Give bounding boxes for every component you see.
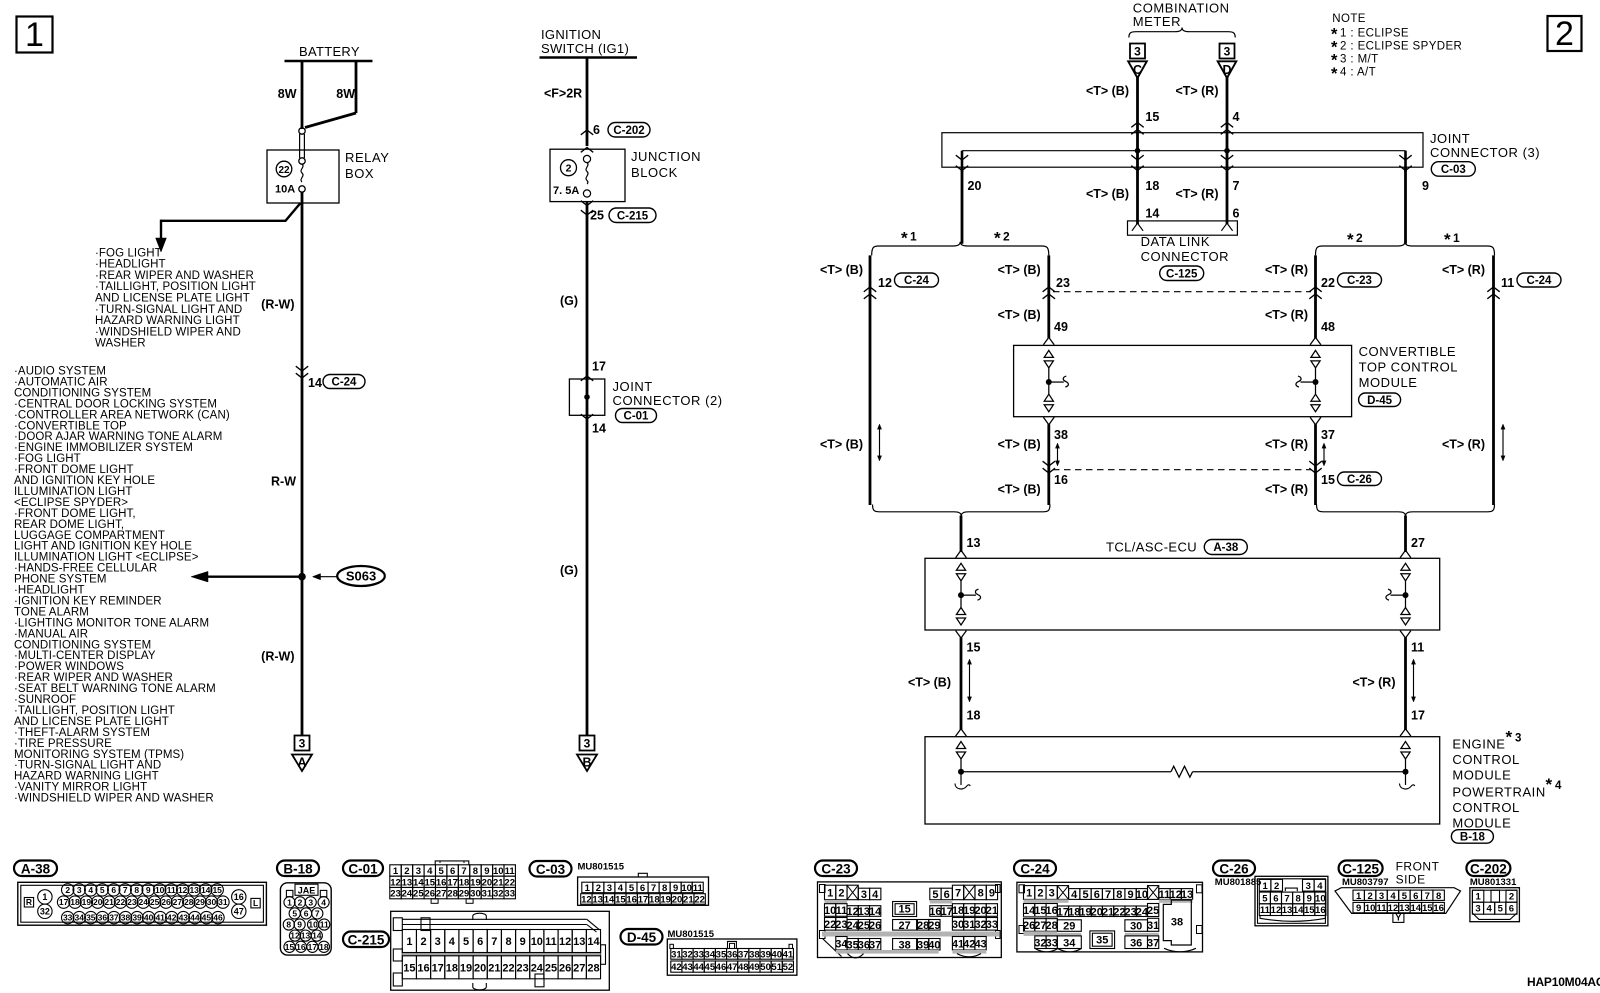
svg-text:18: 18 [967, 709, 981, 723]
svg-text:<T> (B): <T> (B) [1086, 187, 1129, 201]
svg-text:14: 14 [413, 877, 424, 888]
svg-text:11: 11 [1411, 641, 1424, 655]
svg-text:5: 5 [1082, 889, 1088, 901]
svg-text:11: 11 [505, 866, 516, 877]
svg-text:8W: 8W [336, 87, 355, 101]
svg-text:8: 8 [662, 883, 667, 894]
svg-text:15: 15 [403, 962, 415, 974]
svg-text:5: 5 [292, 908, 297, 918]
svg-text:29: 29 [459, 889, 470, 900]
svg-text:POWERTRAIN: POWERTRAIN [1452, 784, 1545, 799]
svg-text:BOX: BOX [345, 166, 374, 181]
svg-text:C-202: C-202 [1470, 861, 1507, 876]
svg-text:12: 12 [1271, 905, 1282, 916]
svg-text:7: 7 [315, 908, 320, 918]
svg-text:27: 27 [173, 897, 183, 907]
svg-text:4: 4 [1071, 889, 1078, 901]
svg-text:21: 21 [986, 905, 998, 917]
svg-text:A: A [297, 756, 306, 770]
svg-text:TOP CONTROL: TOP CONTROL [1359, 360, 1458, 375]
svg-text:*: * [1331, 65, 1338, 83]
svg-text:R: R [26, 897, 32, 907]
svg-text:14: 14 [1145, 207, 1159, 221]
svg-text:17: 17 [59, 897, 69, 907]
svg-text:7: 7 [1425, 891, 1430, 902]
svg-text:2: 2 [1003, 230, 1010, 244]
svg-text:5: 5 [100, 885, 105, 895]
svg-text:5: 5 [1402, 891, 1408, 902]
svg-text:CONVERTIBLE: CONVERTIBLE [1359, 344, 1457, 359]
svg-text:7: 7 [955, 888, 961, 900]
svg-text:3: 3 [308, 897, 313, 907]
svg-text:HAZARD WARNING LIGHT: HAZARD WARNING LIGHT [95, 315, 240, 327]
svg-text:12: 12 [390, 877, 401, 888]
svg-text:(G): (G) [560, 564, 578, 578]
svg-text:32: 32 [682, 949, 693, 960]
svg-text:17: 17 [592, 360, 606, 374]
svg-text:4: 4 [1233, 110, 1240, 124]
svg-text:12: 12 [878, 276, 892, 290]
svg-text:<T> (R): <T> (R) [1442, 438, 1485, 452]
svg-text:23: 23 [517, 962, 529, 974]
svg-text:A-38: A-38 [21, 861, 51, 876]
svg-text:13: 13 [301, 931, 311, 941]
svg-text:39: 39 [132, 913, 142, 923]
svg-text:C-03: C-03 [1441, 164, 1466, 176]
svg-text:2 : ECLIPSE SPYDER: 2 : ECLIPSE SPYDER [1340, 40, 1462, 52]
svg-text:·TURN-SIGNAL LIGHT AND: ·TURN-SIGNAL LIGHT AND [95, 304, 242, 316]
svg-text:C-24: C-24 [332, 377, 358, 389]
svg-text:<T> (B): <T> (B) [908, 676, 951, 690]
svg-text:4: 4 [1390, 891, 1396, 902]
svg-text:3: 3 [861, 889, 867, 901]
svg-text:7: 7 [1284, 893, 1289, 904]
svg-text:16: 16 [296, 942, 306, 952]
svg-text:2: 2 [566, 163, 572, 175]
svg-text:1: 1 [1026, 888, 1032, 900]
svg-text:BLOCK: BLOCK [631, 165, 678, 180]
svg-text:MU801331: MU801331 [1470, 877, 1517, 888]
svg-text:13: 13 [1181, 889, 1193, 901]
svg-text:38: 38 [1171, 916, 1183, 928]
svg-text:3: 3 [1306, 881, 1311, 892]
svg-text:22: 22 [502, 962, 514, 974]
svg-text:7: 7 [1105, 889, 1111, 901]
svg-text:8: 8 [978, 888, 984, 900]
svg-text:3: 3 [1049, 888, 1055, 900]
svg-text:4: 4 [88, 885, 93, 895]
svg-text:16: 16 [436, 877, 447, 888]
svg-text:S063: S063 [346, 569, 376, 584]
svg-text:11: 11 [1377, 903, 1388, 914]
svg-text:32: 32 [493, 889, 504, 900]
svg-text:C-125: C-125 [1166, 268, 1198, 280]
svg-text:CONTROL: CONTROL [1452, 800, 1519, 815]
svg-text:Y: Y [1395, 913, 1401, 923]
svg-text:·REAR WIPER AND WASHER: ·REAR WIPER AND WASHER [95, 270, 254, 282]
svg-text:2: 2 [1509, 892, 1514, 903]
svg-text:CONNECTOR (3): CONNECTOR (3) [1430, 145, 1540, 160]
svg-text:9: 9 [989, 888, 995, 900]
svg-text:37: 37 [109, 913, 119, 923]
svg-text:B-18: B-18 [283, 861, 313, 876]
svg-text:11: 11 [1260, 905, 1271, 916]
svg-text:11: 11 [1501, 276, 1514, 290]
svg-text:14: 14 [592, 422, 606, 436]
svg-text:48: 48 [1321, 320, 1335, 334]
svg-text:18: 18 [459, 877, 470, 888]
svg-text:2: 2 [1367, 891, 1372, 902]
svg-text:2: 2 [1274, 881, 1279, 892]
svg-text:C-215: C-215 [617, 210, 649, 222]
svg-text:14: 14 [1293, 905, 1304, 916]
svg-text:39: 39 [760, 949, 771, 960]
svg-text:6: 6 [1413, 891, 1418, 902]
svg-text:D-45: D-45 [1367, 395, 1393, 407]
svg-text:22: 22 [504, 877, 515, 888]
svg-text:C-24: C-24 [1527, 275, 1553, 287]
svg-text:29: 29 [928, 920, 940, 932]
svg-text:<T> (B): <T> (B) [1086, 84, 1129, 98]
svg-text:<T> (R): <T> (R) [1265, 308, 1308, 322]
svg-text:18: 18 [70, 897, 80, 907]
svg-text:3: 3 [584, 737, 591, 751]
svg-text:<T> (B): <T> (B) [998, 483, 1041, 497]
svg-text:8: 8 [134, 885, 139, 895]
svg-text:34: 34 [75, 913, 85, 923]
svg-text:BATTERY: BATTERY [299, 44, 360, 59]
svg-text:20: 20 [968, 179, 982, 193]
svg-text:D-45: D-45 [627, 930, 657, 945]
svg-text:(G): (G) [560, 294, 578, 308]
svg-text:6: 6 [640, 883, 645, 894]
svg-text:15: 15 [212, 885, 222, 895]
svg-text:9: 9 [1128, 889, 1134, 901]
svg-text:17: 17 [432, 962, 444, 974]
svg-text:20: 20 [93, 897, 103, 907]
svg-text:19: 19 [82, 897, 92, 907]
svg-text:5: 5 [629, 883, 635, 894]
svg-text:6: 6 [1273, 893, 1278, 904]
svg-text:42: 42 [167, 913, 177, 923]
svg-text:6: 6 [111, 885, 116, 895]
svg-text:24: 24 [402, 889, 413, 900]
svg-text:32: 32 [40, 907, 50, 917]
svg-text:ENGINE: ENGINE [1452, 737, 1505, 752]
svg-text:11: 11 [836, 905, 848, 917]
svg-text:14: 14 [201, 885, 211, 895]
svg-text:22: 22 [116, 897, 126, 907]
svg-text:26: 26 [559, 962, 571, 974]
svg-text:7: 7 [651, 883, 656, 894]
svg-text:3: 3 [435, 936, 441, 948]
svg-text:45: 45 [202, 913, 212, 923]
svg-text:17: 17 [447, 877, 458, 888]
svg-text:11: 11 [545, 936, 557, 948]
svg-text:27: 27 [573, 962, 585, 974]
svg-text:7: 7 [491, 936, 497, 948]
svg-text:<T> (B): <T> (B) [820, 438, 863, 452]
svg-text:RELAY: RELAY [345, 150, 389, 165]
svg-text:B-18: B-18 [1460, 832, 1486, 844]
svg-text:4 : A/T: 4 : A/T [1340, 67, 1376, 79]
svg-text:15: 15 [1304, 905, 1315, 916]
svg-text:<T> (B): <T> (B) [998, 308, 1041, 322]
svg-text:<T> (R): <T> (R) [1265, 483, 1308, 497]
svg-text:3 : M/T: 3 : M/T [1340, 54, 1379, 66]
svg-text:38: 38 [898, 939, 910, 951]
svg-text:2: 2 [65, 885, 70, 895]
svg-text:6: 6 [593, 123, 600, 137]
svg-text:8W: 8W [278, 87, 297, 101]
svg-text:36: 36 [98, 913, 108, 923]
svg-text:C-01: C-01 [348, 861, 378, 876]
svg-text:JAE: JAE [298, 885, 316, 895]
svg-text:31: 31 [671, 949, 682, 960]
svg-text:12: 12 [290, 931, 300, 941]
svg-text:22: 22 [694, 894, 705, 905]
svg-text:·FOG LIGHT: ·FOG LIGHT [95, 247, 162, 259]
svg-text:4: 4 [872, 889, 879, 901]
svg-text:HAP10M04AC: HAP10M04AC [1527, 975, 1600, 989]
svg-text:1: 1 [1356, 891, 1362, 902]
svg-text:9: 9 [484, 866, 489, 877]
svg-text:27: 27 [436, 889, 447, 900]
svg-text:10: 10 [681, 883, 692, 894]
svg-text:10: 10 [824, 905, 836, 917]
svg-text:10: 10 [1136, 889, 1148, 901]
svg-text:WASHER: WASHER [95, 338, 146, 350]
svg-text:10: 10 [531, 936, 543, 948]
svg-text:6: 6 [1509, 904, 1514, 915]
svg-text:12: 12 [559, 936, 571, 948]
svg-text:51: 51 [771, 962, 782, 973]
svg-text:3: 3 [1134, 45, 1141, 59]
svg-text:<T> (R): <T> (R) [1442, 263, 1485, 277]
svg-text:35: 35 [716, 949, 727, 960]
svg-text:C-03: C-03 [536, 862, 566, 877]
svg-text:37: 37 [869, 939, 881, 951]
svg-text:2: 2 [404, 866, 409, 877]
svg-text:43: 43 [179, 913, 189, 923]
svg-text:37: 37 [1147, 937, 1159, 949]
svg-text:37: 37 [1321, 428, 1335, 442]
svg-text:40: 40 [928, 939, 940, 951]
svg-text:49: 49 [1054, 320, 1068, 334]
svg-text:<T> (B): <T> (B) [998, 438, 1041, 452]
svg-text:22: 22 [278, 165, 290, 176]
svg-text:<F>2R: <F>2R [544, 87, 582, 101]
svg-text:4: 4 [618, 883, 624, 894]
svg-text:CONTROL: CONTROL [1452, 752, 1519, 767]
svg-text:35: 35 [86, 913, 96, 923]
svg-text:45: 45 [705, 962, 716, 973]
svg-text:1: 1 [287, 897, 292, 907]
svg-text:16: 16 [417, 962, 429, 974]
svg-text:47: 47 [727, 962, 738, 973]
svg-text:25: 25 [590, 209, 604, 223]
svg-text:<T> (R): <T> (R) [1175, 187, 1218, 201]
svg-text:MU803797: MU803797 [1342, 877, 1388, 888]
svg-text:C-24: C-24 [1020, 861, 1050, 876]
svg-text:<T> (B): <T> (B) [820, 263, 863, 277]
svg-text:C: C [1133, 63, 1142, 77]
svg-text:10: 10 [155, 885, 165, 895]
svg-text:18: 18 [446, 962, 458, 974]
svg-text:C-26: C-26 [1219, 861, 1249, 876]
svg-text:·WINDSHIELD WIPER AND WASHER: ·WINDSHIELD WIPER AND WASHER [14, 793, 214, 805]
svg-text:9: 9 [297, 920, 302, 930]
svg-text:*: * [1506, 728, 1513, 747]
svg-text:1: 1 [1453, 231, 1460, 245]
svg-text:4: 4 [321, 897, 326, 907]
svg-text:D: D [1222, 63, 1231, 77]
svg-text:CONNECTOR (2): CONNECTOR (2) [613, 393, 723, 408]
svg-text:28: 28 [447, 889, 458, 900]
svg-text:14: 14 [869, 906, 882, 918]
svg-text:10: 10 [1315, 893, 1326, 904]
svg-text:CONNECTOR: CONNECTOR [1141, 249, 1230, 264]
svg-text:*: * [901, 229, 908, 248]
svg-text:31: 31 [218, 897, 228, 907]
svg-text:18: 18 [649, 894, 660, 905]
svg-text:C-202: C-202 [613, 125, 644, 137]
svg-text:33: 33 [63, 913, 73, 923]
svg-text:3: 3 [1224, 45, 1231, 59]
svg-text:*: * [994, 229, 1001, 248]
svg-text:3: 3 [77, 885, 82, 895]
svg-text:6: 6 [304, 908, 309, 918]
svg-text:40: 40 [144, 913, 154, 923]
svg-text:47: 47 [234, 907, 244, 917]
svg-text:18: 18 [1145, 179, 1159, 193]
svg-text:2: 2 [838, 888, 844, 900]
svg-text:14: 14 [1411, 903, 1422, 914]
svg-text:28: 28 [1046, 920, 1058, 932]
svg-text:8: 8 [473, 866, 478, 877]
svg-text:15: 15 [1145, 110, 1159, 124]
svg-text:19: 19 [460, 962, 472, 974]
svg-text:8: 8 [505, 936, 511, 948]
svg-text:2: 2 [1555, 15, 1574, 53]
svg-text:21: 21 [493, 877, 504, 888]
svg-text:10: 10 [1365, 903, 1376, 914]
svg-text:16: 16 [1433, 903, 1444, 914]
svg-text:30: 30 [1130, 921, 1142, 933]
svg-text:TCL/ASC-ECU: TCL/ASC-ECU [1106, 540, 1197, 555]
svg-text:33: 33 [1046, 937, 1058, 949]
svg-text:JOINT: JOINT [613, 379, 653, 394]
svg-text:19: 19 [660, 894, 671, 905]
svg-text:6: 6 [477, 936, 483, 948]
svg-text:16: 16 [234, 892, 244, 902]
svg-text:23: 23 [390, 889, 401, 900]
svg-text:13: 13 [592, 894, 603, 905]
svg-text:JOINT: JOINT [1430, 131, 1470, 146]
svg-text:4: 4 [1486, 904, 1492, 915]
svg-text:14: 14 [604, 894, 615, 905]
svg-text:1: 1 [406, 936, 412, 948]
svg-text:20: 20 [482, 877, 493, 888]
svg-text:30: 30 [207, 897, 217, 907]
svg-text:5: 5 [932, 889, 938, 901]
svg-text:20: 20 [474, 962, 486, 974]
svg-text:9: 9 [1422, 179, 1429, 193]
svg-text:6: 6 [1233, 207, 1240, 221]
svg-text:MODULE: MODULE [1359, 375, 1418, 390]
svg-text:C-125: C-125 [1342, 861, 1379, 876]
svg-text:6: 6 [450, 866, 455, 877]
svg-text:52: 52 [783, 962, 794, 973]
svg-text:C-215: C-215 [348, 932, 385, 947]
svg-text:13: 13 [402, 877, 413, 888]
svg-text:36: 36 [1130, 937, 1142, 949]
svg-text:38: 38 [749, 949, 760, 960]
svg-text:8: 8 [286, 920, 291, 930]
svg-text:·HEADLIGHT: ·HEADLIGHT [95, 259, 166, 271]
svg-text:35: 35 [1096, 935, 1108, 947]
svg-text:15: 15 [285, 942, 295, 952]
svg-text:3: 3 [1475, 904, 1480, 915]
svg-text:29: 29 [195, 897, 205, 907]
svg-text:23: 23 [1056, 276, 1070, 290]
svg-text:16: 16 [1315, 905, 1326, 916]
svg-text:11: 11 [320, 920, 329, 930]
svg-text:4: 4 [427, 866, 433, 877]
svg-text:19: 19 [470, 877, 481, 888]
svg-text:44: 44 [693, 962, 704, 973]
svg-text:14: 14 [312, 931, 322, 941]
svg-text:27: 27 [898, 920, 910, 932]
svg-text:4: 4 [1317, 881, 1323, 892]
svg-text:17: 17 [638, 894, 649, 905]
svg-text:21: 21 [683, 894, 694, 905]
svg-text:50: 50 [760, 962, 771, 973]
svg-text:24: 24 [531, 962, 544, 974]
svg-text:<T> (R): <T> (R) [1265, 263, 1308, 277]
svg-text:18: 18 [319, 942, 329, 952]
svg-text:13: 13 [1282, 905, 1293, 916]
svg-text:30: 30 [470, 889, 481, 900]
svg-text:49: 49 [749, 962, 760, 973]
svg-text:MU801515: MU801515 [578, 862, 625, 873]
svg-text:1: 1 [1262, 881, 1268, 892]
svg-text:26: 26 [869, 920, 881, 932]
svg-text:3: 3 [1379, 891, 1384, 902]
svg-text:C-23: C-23 [1347, 275, 1372, 287]
svg-text:4: 4 [1555, 780, 1562, 792]
svg-text:38: 38 [121, 913, 131, 923]
svg-text:17: 17 [308, 942, 318, 952]
svg-text:44: 44 [190, 913, 200, 923]
svg-text:*: * [1546, 775, 1553, 794]
svg-text:25: 25 [413, 889, 424, 900]
svg-text:11: 11 [1159, 889, 1171, 901]
svg-text:AND LICENSE PLATE LIGHT: AND LICENSE PLATE LIGHT [95, 293, 250, 305]
svg-text:28: 28 [587, 962, 599, 974]
svg-text:L: L [253, 898, 258, 908]
svg-text:6: 6 [1094, 889, 1100, 901]
svg-text:5: 5 [1262, 893, 1268, 904]
svg-text:8: 8 [1296, 893, 1301, 904]
svg-text:5: 5 [463, 936, 469, 948]
svg-text:43: 43 [974, 938, 986, 950]
svg-text:25: 25 [545, 962, 557, 974]
svg-text:SWITCH (IG1): SWITCH (IG1) [541, 41, 629, 56]
svg-text:13: 13 [573, 936, 585, 948]
svg-text:25: 25 [1147, 905, 1159, 917]
svg-text:1: 1 [585, 883, 591, 894]
